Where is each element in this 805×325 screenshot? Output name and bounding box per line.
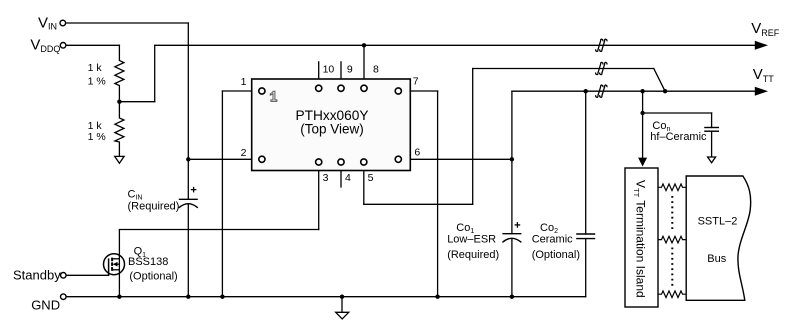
svg-text:CIN: CIN bbox=[128, 188, 143, 201]
svg-text:VDDQ: VDDQ bbox=[30, 37, 60, 54]
svg-text:1: 1 bbox=[241, 76, 247, 88]
svg-text:6: 6 bbox=[414, 147, 420, 159]
svg-text:(Top View): (Top View) bbox=[300, 122, 364, 137]
svg-text:Low–ESR: Low–ESR bbox=[447, 234, 496, 246]
svg-text:4: 4 bbox=[345, 172, 351, 184]
svg-text:8: 8 bbox=[373, 63, 379, 75]
svg-text:hf–Ceramic: hf–Ceramic bbox=[650, 131, 707, 143]
svg-text:Ceramic: Ceramic bbox=[532, 234, 573, 246]
svg-text:VTT Termination Island: VTT Termination Island bbox=[632, 180, 647, 298]
svg-text:GND: GND bbox=[31, 297, 60, 312]
svg-text:7: 7 bbox=[413, 76, 419, 88]
svg-text:2: 2 bbox=[241, 147, 247, 159]
svg-text:(Required): (Required) bbox=[447, 249, 499, 261]
svg-text:Standby: Standby bbox=[13, 268, 61, 283]
svg-text:1 k: 1 k bbox=[88, 62, 103, 74]
svg-text:(Required): (Required) bbox=[128, 201, 180, 213]
svg-text:9: 9 bbox=[347, 63, 353, 75]
svg-text:1 %: 1 % bbox=[88, 75, 106, 87]
svg-text:1 %: 1 % bbox=[88, 131, 106, 143]
svg-text:VREF: VREF bbox=[751, 20, 780, 38]
svg-text:10: 10 bbox=[323, 63, 335, 75]
svg-text:(Optional): (Optional) bbox=[129, 271, 177, 283]
svg-text:VTT: VTT bbox=[753, 66, 775, 84]
svg-text:SSTL–2: SSTL–2 bbox=[698, 216, 738, 228]
svg-text:VIN: VIN bbox=[38, 14, 57, 31]
svg-text:3: 3 bbox=[323, 172, 329, 184]
svg-text:5: 5 bbox=[368, 172, 374, 184]
svg-text:BSS138: BSS138 bbox=[128, 256, 168, 268]
svg-text:PTHxx060Y: PTHxx060Y bbox=[295, 108, 368, 123]
svg-text:Bus: Bus bbox=[707, 253, 726, 265]
svg-text:(Optional): (Optional) bbox=[532, 249, 580, 261]
